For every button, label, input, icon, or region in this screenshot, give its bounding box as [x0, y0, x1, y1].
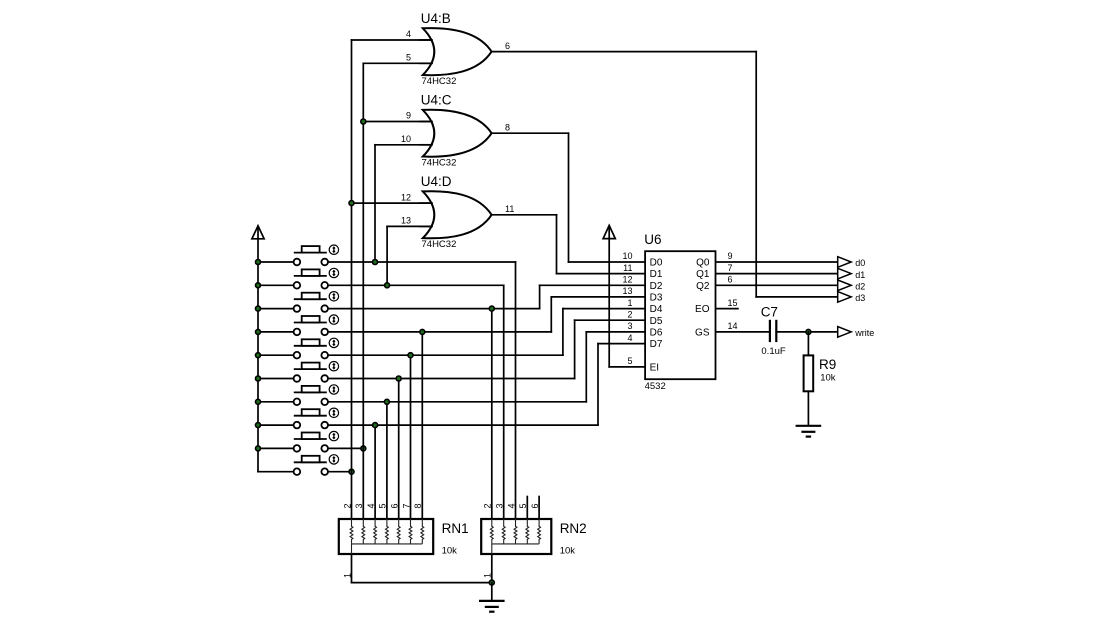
svg-text:10k: 10k: [442, 546, 458, 557]
svg-text:1: 1: [483, 573, 493, 578]
svg-text:9: 9: [728, 251, 733, 261]
svg-text:13: 13: [622, 286, 632, 296]
svg-text:15: 15: [728, 298, 738, 308]
svg-text:d2: d2: [855, 282, 865, 292]
svg-text:U4:D: U4:D: [421, 174, 452, 189]
svg-text:R9: R9: [819, 357, 836, 372]
svg-text:D0: D0: [650, 258, 663, 269]
svg-text:5: 5: [406, 53, 411, 63]
svg-text:1: 1: [627, 298, 632, 308]
svg-text:RN2: RN2: [560, 521, 587, 536]
svg-text:GS: GS: [695, 327, 710, 338]
svg-text:6: 6: [505, 41, 510, 51]
svg-text:4: 4: [627, 333, 632, 343]
svg-text:6: 6: [390, 503, 400, 508]
svg-text:8: 8: [413, 503, 423, 508]
svg-text:3: 3: [354, 503, 364, 508]
svg-text:74HC32: 74HC32: [422, 239, 457, 250]
svg-text:5: 5: [518, 503, 528, 508]
svg-text:4: 4: [366, 503, 376, 508]
svg-text:4: 4: [406, 29, 411, 39]
svg-text:D1: D1: [650, 269, 663, 280]
svg-text:9: 9: [406, 111, 411, 121]
svg-text:10k: 10k: [560, 546, 576, 557]
svg-text:12: 12: [622, 275, 632, 285]
svg-text:7: 7: [401, 503, 411, 508]
svg-text:74HC32: 74HC32: [422, 76, 457, 87]
svg-text:D7: D7: [650, 339, 663, 350]
svg-text:2: 2: [627, 309, 632, 319]
svg-text:EI: EI: [650, 362, 659, 373]
svg-text:d3: d3: [855, 293, 865, 303]
svg-text:3: 3: [495, 503, 505, 508]
svg-text:D4: D4: [650, 304, 663, 315]
svg-text:0.1uF: 0.1uF: [761, 346, 785, 357]
svg-text:U6: U6: [644, 232, 661, 247]
svg-text:6: 6: [530, 503, 540, 508]
svg-text:5: 5: [378, 503, 388, 508]
svg-text:Q0: Q0: [696, 258, 710, 269]
svg-text:d1: d1: [855, 270, 865, 280]
svg-text:5: 5: [627, 356, 632, 366]
svg-text:d0: d0: [855, 258, 865, 268]
svg-text:74HC32: 74HC32: [422, 158, 457, 169]
svg-text:4532: 4532: [645, 381, 666, 392]
svg-text:D6: D6: [650, 327, 663, 338]
svg-text:C7: C7: [761, 305, 778, 320]
svg-text:6: 6: [728, 275, 733, 285]
svg-text:Q2: Q2: [696, 281, 710, 292]
svg-text:10k: 10k: [820, 373, 836, 384]
svg-text:Q1: Q1: [696, 269, 710, 280]
svg-text:2: 2: [483, 503, 493, 508]
svg-text:11: 11: [505, 204, 514, 214]
svg-text:11: 11: [623, 263, 632, 273]
svg-text:D5: D5: [650, 316, 663, 327]
svg-text:1: 1: [342, 573, 352, 578]
svg-text:D2: D2: [650, 281, 663, 292]
svg-text:14: 14: [728, 321, 738, 331]
svg-text:10: 10: [622, 251, 632, 261]
svg-text:10: 10: [401, 134, 411, 144]
svg-text:13: 13: [401, 216, 411, 226]
svg-text:7: 7: [728, 263, 733, 273]
svg-text:U4:B: U4:B: [421, 11, 451, 26]
svg-text:4: 4: [506, 503, 516, 508]
svg-text:3: 3: [627, 321, 632, 331]
svg-text:U4:C: U4:C: [421, 92, 452, 107]
svg-text:EO: EO: [695, 304, 710, 315]
svg-text:D3: D3: [650, 292, 663, 303]
svg-text:write: write: [854, 328, 874, 338]
svg-text:RN1: RN1: [442, 521, 469, 536]
svg-text:2: 2: [342, 503, 352, 508]
svg-text:12: 12: [401, 192, 411, 202]
svg-text:8: 8: [505, 122, 510, 132]
